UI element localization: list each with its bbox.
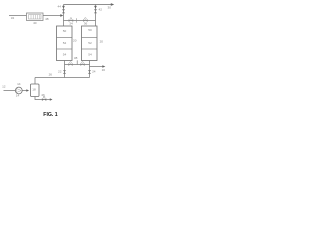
svg-text:14: 14 [17, 82, 21, 86]
svg-text:14: 14 [16, 94, 20, 98]
valve equalization A stem [70, 18, 72, 20]
svg-text:52: 52 [88, 41, 92, 45]
svg-text:20: 20 [100, 39, 104, 43]
valve equalization B stem [85, 18, 87, 20]
svg-text:12: 12 [2, 85, 6, 89]
wire manifold to tank [34, 78, 36, 85]
svg-text:18: 18 [32, 88, 36, 92]
wire feed inlet [4, 90, 16, 92]
svg-text:42: 42 [98, 8, 102, 12]
svg-text:46: 46 [41, 93, 45, 97]
left column divider 1 [57, 37, 73, 39]
valve equalization A [69, 19, 74, 22]
wire top manifold [64, 4, 112, 6]
wire top equalization line [64, 20, 96, 22]
svg-text:44: 44 [57, 4, 61, 8]
right column divider 2 [82, 48, 98, 50]
right column outline 20b [82, 26, 98, 61]
svg-text:26: 26 [49, 73, 53, 77]
wire left riser [63, 5, 65, 27]
wire product line [90, 66, 104, 68]
left column divider 2 [57, 48, 73, 50]
svg-text:50: 50 [88, 28, 92, 32]
svg-text:32: 32 [11, 16, 15, 20]
svg-text:48: 48 [45, 17, 49, 21]
svg-text:54: 54 [63, 53, 67, 57]
tank 18 [31, 84, 40, 97]
svg-text:30: 30 [107, 6, 111, 10]
muffler hatch [31, 15, 40, 19]
arrowhead into junction [60, 14, 63, 17]
wire right riser [95, 5, 97, 27]
compressor internals [17, 89, 22, 93]
left column outline 20a [57, 26, 73, 61]
muffler box outer [27, 13, 44, 21]
arrowhead top manifold right [111, 3, 114, 6]
wire orifice stub [76, 60, 78, 64]
wire box to junction [43, 15, 61, 17]
valve purge A [68, 63, 72, 66]
arrowhead compressor to tank [26, 89, 29, 92]
arrowhead left riser down [62, 6, 65, 9]
svg-text:54: 54 [88, 53, 92, 57]
wire compressor to tank [22, 90, 28, 92]
svg-text:34: 34 [69, 22, 73, 26]
wire left column drop [64, 61, 66, 78]
svg-text:52: 52 [63, 41, 67, 45]
svg-text:24: 24 [92, 69, 96, 73]
svg-text:16: 16 [102, 68, 106, 72]
arrowhead drain right [50, 98, 53, 101]
muffler box inner [29, 15, 42, 19]
wire bottom manifold [35, 77, 90, 79]
wire purge line [65, 64, 90, 66]
svg-text:38: 38 [74, 56, 78, 60]
wire tank drain [35, 97, 51, 100]
valve right riser [94, 9, 97, 13]
wire feed line left [9, 15, 27, 17]
valve purge B stem [82, 62, 84, 64]
svg-text:50: 50 [63, 29, 67, 33]
svg-text:40: 40 [33, 21, 37, 25]
svg-text:20: 20 [73, 39, 77, 43]
arrowhead product right [102, 65, 105, 68]
wire right column drop [89, 61, 91, 78]
svg-text:36: 36 [84, 22, 88, 26]
valve drain actuator [43, 96, 45, 98]
valve left riser [62, 9, 65, 13]
compressor circle 14 [15, 87, 22, 94]
flow tick equalization [76, 18, 78, 22]
valve equalization B [83, 19, 88, 22]
valve drain [42, 98, 46, 101]
valve right feed [88, 70, 91, 74]
right column divider 1 [82, 37, 98, 39]
svg-text:FIG. 1: FIG. 1 [43, 112, 58, 118]
valve left feed [63, 70, 66, 74]
valve purge A stem [70, 62, 72, 64]
arrowhead right riser down [94, 6, 97, 9]
valve purge B [80, 63, 84, 66]
svg-text:22: 22 [58, 70, 62, 74]
